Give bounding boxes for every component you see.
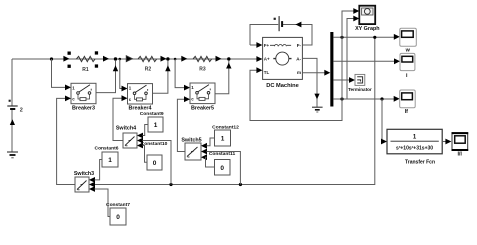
breaker Breaker4: [128, 84, 153, 112]
wire Constant10 to Switch4 input 3: [143, 146, 148, 163]
wire top rail: [12, 58, 262, 60]
wire feedback branch to Switch5 control: [239, 183, 242, 186]
wire Breaker4 output up to node C: [153, 61, 168, 93]
switch Switch4: [116, 126, 143, 149]
wire Breaker3 output up to node B: [96, 61, 116, 93]
scope i: [400, 53, 415, 79]
switch Switch5: [181, 137, 207, 160]
svg-text:Constant6: Constant6: [95, 146, 119, 152]
ground G1: [7, 151, 18, 153]
battery B1 plates: [7, 105, 17, 107]
wire node A to Breaker3 input 1: [52, 59, 66, 87]
constant Constant10: [141, 141, 168, 170]
constant Constant6: [95, 146, 119, 168]
svg-text:Switch4: Switch4: [116, 126, 136, 132]
svg-text:1: 1: [154, 122, 158, 129]
battery B2 (field): [278, 16, 280, 31]
svg-text:Constant9: Constant9: [140, 111, 164, 117]
constant Constant12: [212, 125, 239, 147]
wire Switch4 output to Breaker4 c: [113, 98, 123, 140]
svg-text:F+: F+: [264, 43, 270, 48]
wire Constant7 to Switch3 input 3: [95, 189, 111, 217]
wire m to demux: [302, 72, 325, 74]
field supply loop wires: [250, 25, 312, 46]
svg-text:TL: TL: [264, 70, 270, 75]
wire Constant6 to Switch3 input 1: [95, 160, 103, 180]
scope w: [400, 28, 417, 53]
battery B1 polarity dot: [9, 100, 11, 102]
node If tap for transfer fcn: [380, 97, 383, 100]
wire Constant11 to Switch5 input 3: [206, 157, 215, 167]
svg-text:m: m: [297, 70, 301, 75]
node on If line: [340, 97, 343, 100]
wire demux out 3 to terminator: [333, 79, 349, 81]
svg-text:XY Graph: XY Graph: [355, 26, 379, 32]
svg-text:0: 0: [153, 160, 157, 167]
xy graph block: [355, 6, 379, 32]
dc machine U1: [263, 37, 303, 89]
scope If: [400, 90, 416, 115]
breaker Breaker5: [190, 83, 215, 111]
transfer fcn block: [387, 129, 442, 165]
wire Breaker5 output up to node D: [215, 61, 229, 94]
svg-text:Constant7: Constant7: [106, 202, 130, 208]
wire Switch3 output to Breaker3 c: [57, 98, 75, 184]
breaker Breaker3: [71, 83, 96, 111]
wire Constant12 to Switch5 input 1: [207, 138, 215, 146]
svg-text:Transfer Fcn: Transfer Fcn: [405, 160, 435, 166]
ground G2: [312, 106, 323, 108]
wire speed feedback from w line to switch controls: [95, 37, 375, 184]
node A: [50, 57, 53, 60]
wire feedback branch to Switch4 control: [169, 183, 172, 186]
wire node C down to Breaker5 input 1: [174, 58, 177, 61]
svg-text:A-: A-: [296, 57, 301, 62]
resistor R1: [63, 56, 69, 62]
svg-text:F-: F-: [297, 43, 302, 48]
wire If line tap to XY Graph input 2: [347, 19, 354, 100]
arrow on field loop: [295, 22, 301, 28]
wire left source branch: [11, 59, 13, 152]
constant Constant11: [209, 151, 236, 175]
node w tap for XY Graph: [340, 36, 343, 39]
svg-text:Switch3: Switch3: [74, 171, 94, 177]
svg-text:Breaker5: Breaker5: [191, 105, 214, 111]
wire If tap to Transfer Fcn input: [381, 99, 383, 142]
constant Constant7: [106, 202, 130, 225]
svg-text:Breaker3: Breaker3: [72, 105, 95, 111]
svg-text:Terminator: Terminator: [348, 87, 372, 92]
demux bar: [330, 32, 333, 107]
svg-text:1: 1: [221, 136, 225, 143]
node B: [114, 57, 117, 60]
node w tap for feedback: [373, 36, 376, 39]
wire Transfer Fcn to scope I/I: [442, 141, 446, 143]
wire w tap down to TL port: [250, 37, 342, 120]
svg-text:Switch5: Switch5: [181, 137, 201, 143]
node D: [227, 57, 230, 60]
wire Switch5 output to Breaker5 c: [177, 99, 185, 151]
svg-text:I/I: I/I: [457, 152, 462, 158]
svg-text:2: 2: [20, 108, 23, 114]
wire demux out 1 to scope w: [333, 36, 394, 38]
arrow on source wire: [10, 119, 15, 125]
svg-text:R1: R1: [82, 67, 89, 73]
svg-text:0: 0: [220, 165, 224, 172]
svg-text:R2: R2: [145, 67, 152, 73]
resistor R3: [181, 56, 187, 62]
node C: [166, 57, 169, 60]
resistor R1 selection handles: [68, 52, 71, 55]
wire rail to A+ port: [256, 58, 258, 60]
constant Constant9: [140, 111, 164, 132]
wire demux out 4 to scope If: [333, 98, 394, 100]
svg-text:Breaker4: Breaker4: [128, 106, 151, 112]
wire Constant9 to Switch4 input 1: [143, 125, 149, 136]
switch Switch3: [74, 171, 95, 192]
terminator block: [348, 74, 372, 92]
svg-text:R3: R3: [199, 67, 206, 73]
svg-text:s³+10s²+31s+30: s³+10s²+31s+30: [396, 146, 433, 152]
svg-text:If: If: [405, 109, 408, 115]
resistor R2: [126, 56, 132, 62]
svg-text:0: 0: [116, 214, 120, 221]
svg-text:w: w: [405, 48, 411, 54]
wire demux out 2 to scope i: [333, 60, 394, 62]
wire node B down to Breaker4 input 1: [119, 58, 122, 61]
svg-text:DC Machine: DC Machine: [266, 83, 299, 89]
scope I/I: [452, 133, 469, 158]
svg-text:1: 1: [108, 157, 112, 164]
wire A- to ground: [302, 58, 317, 107]
svg-text:A+: A+: [264, 57, 270, 62]
wire w tap to XY Graph input 1: [342, 11, 354, 37]
